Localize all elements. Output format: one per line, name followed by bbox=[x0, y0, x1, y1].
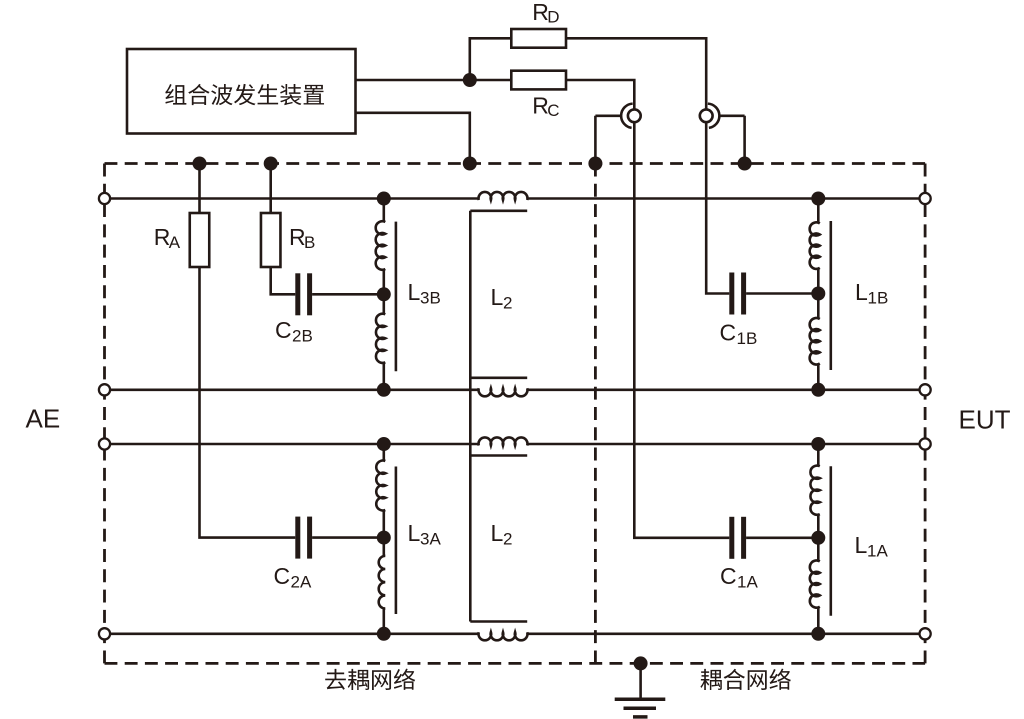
wire junction up to Rd bbox=[470, 38, 512, 80]
terminal AE L2 bbox=[99, 384, 110, 395]
svg-text:1A: 1A bbox=[867, 542, 888, 561]
wire conductor L3 third bbox=[105, 443, 926, 446]
capacitor C2B bbox=[295, 273, 300, 315]
resistor RA bbox=[190, 213, 210, 267]
terminal AE L1 bbox=[99, 193, 110, 204]
node L3B mid bbox=[377, 287, 391, 301]
wire conductor N bottom bbox=[105, 632, 926, 635]
node enclosure right tap bbox=[738, 157, 752, 171]
inductor L1B core bbox=[829, 221, 832, 370]
wire RA top bbox=[198, 164, 201, 214]
resistor RB bbox=[261, 213, 281, 267]
wire conductor L1 top bbox=[105, 197, 926, 200]
node L1A top bbox=[811, 437, 825, 451]
label 耦合网络 coupling network bbox=[700, 669, 790, 690]
svg-text:L: L bbox=[408, 520, 421, 546]
inductor L2 top core bbox=[470, 211, 527, 622]
svg-text:L: L bbox=[491, 284, 504, 310]
inductor L2 bottom winding lower bbox=[479, 632, 528, 640]
resistor Rc bbox=[511, 71, 566, 90]
dashed separator net bbox=[594, 164, 597, 664]
svg-text:1A: 1A bbox=[737, 573, 758, 592]
wire generator out A to Rc bbox=[356, 79, 512, 82]
inductor L3B core bbox=[395, 222, 398, 372]
node ground bbox=[634, 656, 648, 670]
node L3A bottom bbox=[377, 627, 391, 641]
inductor L2 top winding B bbox=[479, 192, 528, 200]
capacitor C2A bbox=[295, 517, 300, 559]
wire C1B to L1B bbox=[746, 292, 818, 295]
capacitor C1A bbox=[729, 517, 734, 559]
svg-text:C: C bbox=[547, 101, 559, 120]
inductor L2 top winding lower bbox=[479, 388, 528, 396]
svg-text:D: D bbox=[547, 8, 559, 27]
svg-text:1B: 1B bbox=[737, 329, 758, 348]
svg-text:2: 2 bbox=[503, 293, 512, 312]
inductor L3A bbox=[382, 444, 385, 634]
label 去耦网络 decoupling network bbox=[325, 669, 415, 690]
svg-text:AE: AE bbox=[26, 404, 61, 434]
inductor L2 bottom winding upper bbox=[479, 437, 528, 445]
wire RB down to C2B bbox=[271, 267, 296, 294]
ground bbox=[639, 663, 642, 699]
terminal EUT L3 bbox=[920, 438, 931, 449]
wire Rd to right coax bbox=[566, 38, 706, 116]
terminal AE N bbox=[99, 628, 110, 639]
wire conductor L2 second bbox=[105, 388, 926, 391]
terminal EUT L2 bbox=[920, 384, 931, 395]
wire right coax down to C1B bbox=[706, 116, 729, 294]
wire C2B to L3B bbox=[312, 293, 384, 296]
svg-text:1B: 1B bbox=[868, 289, 889, 308]
connector left coax bbox=[628, 109, 641, 122]
terminal EUT L1 bbox=[920, 193, 931, 204]
wire left coax down to C1A bbox=[634, 116, 729, 538]
connector right coax bbox=[700, 109, 713, 122]
wire RA down to C2A bbox=[200, 267, 296, 538]
node enclosure RA bbox=[193, 157, 207, 171]
svg-text:2: 2 bbox=[503, 530, 512, 549]
svg-text:C: C bbox=[275, 317, 292, 343]
terminal AE L3 bbox=[99, 438, 110, 449]
label 组合波发生装置 bbox=[165, 84, 324, 105]
node L3A mid bbox=[377, 531, 391, 545]
enclosure dashed box bbox=[105, 162, 926, 165]
svg-text:L: L bbox=[408, 279, 421, 305]
node L1A mid bbox=[811, 531, 825, 545]
svg-text:EUT: EUT bbox=[959, 404, 1011, 434]
wire C2A to L3A bbox=[312, 536, 384, 539]
generator box U1 组合波发生装置 bbox=[127, 49, 356, 134]
svg-text:L: L bbox=[855, 279, 868, 305]
inductor L1A bbox=[817, 444, 820, 634]
inductor L3B bbox=[382, 199, 385, 390]
node L1B top bbox=[811, 192, 825, 206]
node enclosure RB bbox=[264, 157, 278, 171]
svg-text:C: C bbox=[274, 563, 291, 589]
inductor L3A core bbox=[395, 467, 398, 615]
node L1A bottom bbox=[811, 627, 825, 641]
node L3A top bbox=[377, 437, 391, 451]
capacitor C1B bbox=[729, 273, 734, 315]
node L3B top bbox=[377, 192, 391, 206]
node enclosure separator bbox=[588, 157, 602, 171]
svg-text:C: C bbox=[720, 319, 737, 345]
svg-text:C: C bbox=[720, 563, 737, 589]
wire C1A to L1A bbox=[746, 536, 818, 539]
terminal EUT N bbox=[920, 628, 931, 639]
node junction generator bbox=[463, 73, 477, 87]
node L3B bottom bbox=[377, 383, 391, 397]
wire Rc to left coax bbox=[566, 80, 634, 116]
node L1B bottom bbox=[811, 383, 825, 397]
inductor L1A core bbox=[829, 466, 832, 616]
svg-text:A: A bbox=[169, 233, 181, 252]
svg-text:2B: 2B bbox=[292, 326, 313, 345]
connector left coax tap bbox=[595, 116, 621, 164]
svg-text:B: B bbox=[304, 233, 315, 252]
inductor L2 bottom core bbox=[470, 456, 527, 622]
wire generator out B to enclosure bbox=[356, 113, 470, 164]
svg-text:2A: 2A bbox=[291, 573, 312, 592]
resistor Rd bbox=[511, 29, 566, 48]
node L1B mid bbox=[811, 287, 825, 301]
svg-text:L: L bbox=[855, 532, 868, 558]
svg-text:L: L bbox=[491, 520, 504, 546]
wire RB top bbox=[269, 164, 272, 214]
inductor L1B bbox=[817, 199, 820, 390]
node enclosure generator bbox=[463, 157, 477, 171]
svg-text:3A: 3A bbox=[420, 530, 441, 549]
connector right coax tap bbox=[719, 116, 745, 164]
svg-text:3B: 3B bbox=[420, 289, 441, 308]
